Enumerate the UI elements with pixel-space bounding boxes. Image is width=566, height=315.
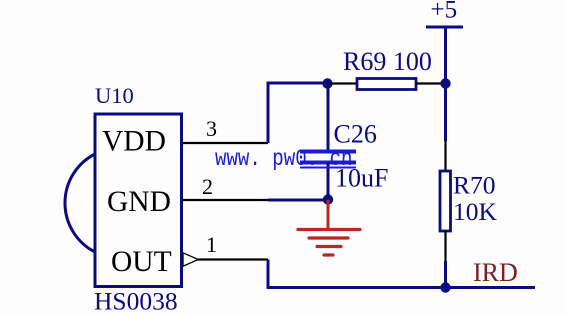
pin name VDD (102, 126, 166, 158)
ground bar 4 (324, 253, 333, 256)
ground bar 1 (298, 228, 360, 231)
pin name GND (107, 186, 171, 218)
svg-text:R69 100: R69 100 (343, 47, 432, 76)
capacitor C26 top plate (300, 150, 356, 154)
label R70 (453, 171, 496, 200)
IC U10 left detector arc (65, 154, 95, 252)
pin 3 lead of U10 (182, 142, 268, 144)
svg-text:3: 3 (206, 116, 217, 141)
wire pin1 down and right to IRD net (268, 260, 535, 288)
svg-text:VDD: VDD (102, 126, 166, 158)
pin 2 lead of U10 (182, 199, 268, 201)
wire pin2 to node D (268, 199, 328, 202)
svg-text:+5: +5 (431, 0, 458, 24)
wire node A down to capacitor C26 (327, 83, 330, 152)
junction node A (322, 78, 332, 88)
label 10uF (335, 164, 388, 193)
pin 1 output triangle of U10 (183, 253, 198, 266)
designator U10 (95, 83, 134, 108)
label 10K (453, 197, 498, 226)
pin number 1 (206, 232, 217, 257)
resistor R70 top pin (444, 141, 446, 171)
label R69 100 (343, 47, 432, 76)
wire capacitor to node D (327, 163, 330, 200)
pin number 3 (206, 116, 217, 141)
svg-text:C26: C26 (334, 120, 377, 149)
wire pin3 to node A (268, 83, 327, 143)
wire node B down to R70 (444, 84, 447, 141)
ground bar 3 (317, 245, 341, 248)
svg-text:10K: 10K (453, 197, 498, 226)
resistor R70 bottom pin (444, 231, 446, 261)
label C26 (334, 120, 377, 149)
capacitor C26 bottom plate (300, 161, 356, 165)
ground stem (327, 200, 330, 229)
svg-text:U10: U10 (95, 83, 134, 108)
part number HS0038 (94, 287, 178, 315)
net label IRD (473, 258, 518, 287)
svg-text:2: 2 (202, 174, 213, 199)
IC U10 body (HS0038 IR receiver rectangle) (95, 114, 182, 287)
pin 1 lead of U10 (198, 258, 268, 260)
pin name OUT (111, 246, 172, 278)
wire R70 to node C (444, 261, 447, 288)
svg-text:HS0038: HS0038 (94, 287, 178, 315)
junction node D (323, 194, 333, 204)
ground bar 2 (309, 236, 348, 239)
resistor R69 left pin (327, 82, 357, 84)
+5 power bar (426, 26, 463, 29)
resistor R69 body (357, 79, 416, 90)
svg-text:OUT: OUT (111, 246, 172, 278)
svg-text:IRD: IRD (473, 258, 518, 287)
svg-text:1: 1 (206, 232, 217, 257)
label +5 (431, 0, 458, 24)
pin number 2 (202, 174, 213, 199)
resistor R70 body (440, 171, 451, 231)
svg-text:R70: R70 (453, 171, 496, 200)
junction node C (440, 282, 450, 292)
wire node B to +5 bar (444, 27, 447, 83)
svg-text:GND: GND (107, 186, 171, 218)
junction node B (440, 78, 450, 88)
resistor R69 right pin (416, 82, 446, 84)
watermark www. pw0. cn (215, 146, 353, 172)
watermark underline (300, 167, 356, 169)
